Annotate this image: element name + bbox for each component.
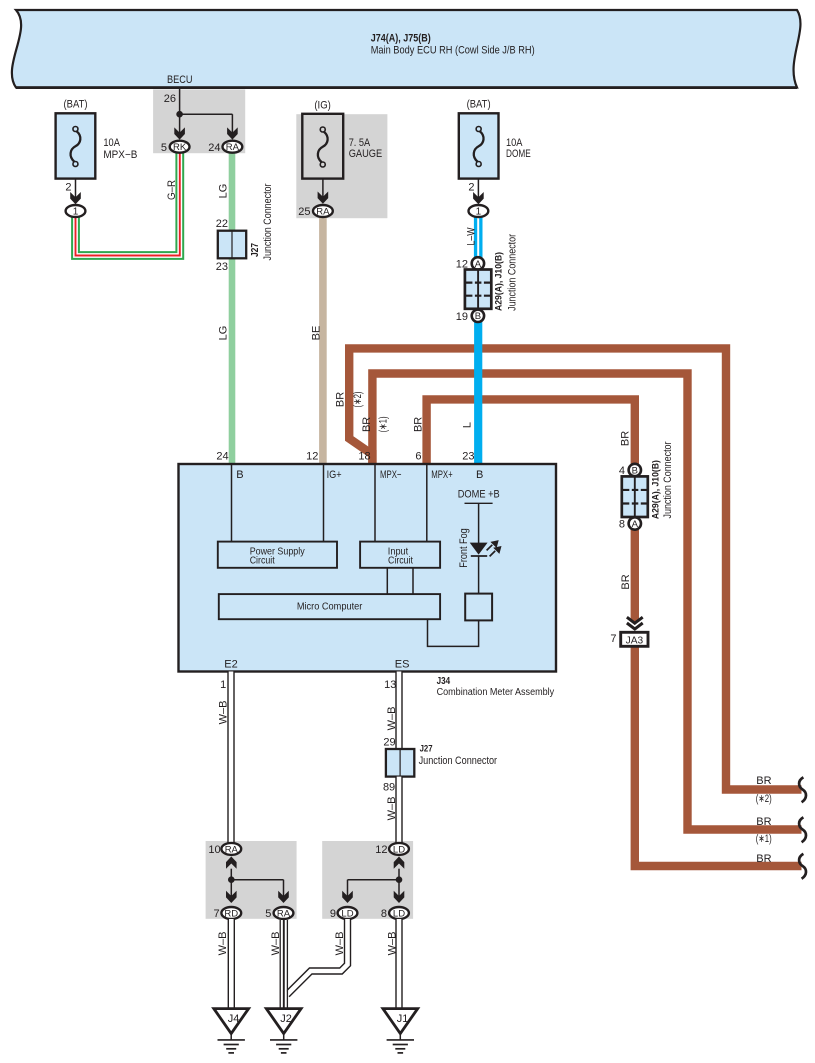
- svg-text:A: A: [632, 519, 639, 530]
- svg-text:RD: RD: [224, 909, 238, 920]
- svg-text:G–R: G–R: [166, 180, 178, 200]
- arrow into terminal 1: [473, 192, 484, 204]
- wire LG: BECU RA to J27 pin22: [229, 154, 236, 232]
- svg-text:BR: BR: [756, 853, 771, 865]
- svg-text:IG+: IG+: [327, 469, 342, 481]
- gray block BECU connector area: [153, 89, 245, 153]
- arrow up into 12 LD: [394, 857, 405, 869]
- svg-text:L–W: L–W: [465, 227, 477, 245]
- terminal 24 RA: [223, 141, 243, 153]
- svg-text:A29(A), J10(B): A29(A), J10(B): [494, 252, 505, 311]
- svg-text:10: 10: [208, 844, 220, 856]
- wire W-B: ES pin13 to J27 pin29: [395, 672, 402, 750]
- svg-text:(∗1): (∗1): [756, 833, 772, 845]
- wire BE: gauge fuse to meter pin12: [319, 218, 327, 464]
- svg-text:25: 25: [298, 206, 310, 218]
- svg-text:ES: ES: [395, 658, 410, 670]
- svg-text:BR: BR: [619, 431, 631, 446]
- arrow into RA: [227, 127, 238, 139]
- ground J4: [214, 1009, 249, 1034]
- svg-text:12: 12: [375, 844, 387, 856]
- wire W-B: 9 LD to ground J2 (diagonal): [287, 919, 348, 995]
- wire branch left block: [230, 869, 232, 880]
- svg-text:L: L: [462, 422, 474, 428]
- svg-text:LD: LD: [393, 844, 405, 855]
- svg-text:2: 2: [468, 182, 474, 194]
- svg-text:24: 24: [216, 451, 228, 463]
- svg-text:LD: LD: [341, 909, 353, 920]
- svg-text:E2: E2: [224, 658, 237, 670]
- svg-text:BE: BE: [310, 326, 322, 341]
- svg-text:(∗1): (∗1): [377, 416, 389, 432]
- box Micro Computer: [219, 594, 440, 619]
- svg-text:18: 18: [358, 451, 370, 463]
- svg-text:J27: J27: [420, 744, 433, 754]
- svg-text:B: B: [475, 311, 481, 322]
- wire fuse pin2: [477, 179, 479, 198]
- terminal 1: [469, 205, 489, 217]
- svg-text:10A: 10A: [103, 137, 120, 149]
- svg-text:J74(A), J75(B): J74(A), J75(B): [371, 33, 431, 45]
- svg-text:5: 5: [161, 142, 167, 154]
- wire LED to lamp box: [478, 556, 480, 594]
- svg-text:(∗2): (∗2): [352, 392, 364, 408]
- arrow into 7 RD: [226, 891, 237, 903]
- ground J2: [266, 1009, 301, 1034]
- squiggle BR: [799, 854, 806, 879]
- arrow up into 10 RA: [226, 857, 237, 869]
- svg-text:W–B: W–B: [334, 932, 346, 956]
- svg-text:RA: RA: [316, 207, 330, 218]
- arrow into terminal 1: [70, 192, 81, 204]
- svg-text:7: 7: [213, 908, 219, 920]
- svg-text:RA: RA: [226, 142, 240, 153]
- svg-text:23: 23: [216, 261, 228, 273]
- svg-text:A29(A), J10(B): A29(A), J10(B): [650, 460, 661, 519]
- svg-text:BR: BR: [361, 417, 373, 432]
- svg-text:RA: RA: [277, 909, 291, 920]
- lamp driver box: [465, 594, 492, 621]
- svg-text:LG: LG: [218, 184, 230, 199]
- node junction dot: [176, 111, 183, 118]
- terminal 25 RA: [313, 205, 333, 217]
- wire BECU pin26 drop: [179, 89, 181, 134]
- svg-text:W–B: W–B: [270, 932, 282, 956]
- svg-text:B: B: [476, 469, 483, 481]
- svg-text:J34: J34: [437, 676, 451, 687]
- wire BR (*2): meter pin18 to right side, squiggle end: [349, 348, 801, 789]
- svg-text:W–B: W–B: [217, 932, 229, 956]
- svg-text:Front Fog: Front Fog: [458, 528, 470, 568]
- svg-text:(BAT): (BAT): [467, 99, 491, 111]
- svg-text:Junction Connector: Junction Connector: [419, 755, 498, 767]
- arrow into 9 LD: [342, 891, 353, 903]
- svg-text:LG: LG: [218, 326, 230, 341]
- svg-text:24: 24: [208, 142, 220, 154]
- svg-text:RK: RK: [173, 142, 187, 153]
- combination meter J34 box: [179, 464, 557, 672]
- svg-text:Circuit: Circuit: [388, 556, 413, 567]
- wire W-B: E2 pin1 to 10 RA: [227, 672, 234, 844]
- box Input Circuit: [360, 542, 440, 568]
- wire L-W: dome fuse terminal 1 to A29 pin12: [474, 216, 483, 258]
- wire fuse to 25 RA: [322, 179, 324, 197]
- arrow into 5 RA: [278, 891, 289, 903]
- banner: Main Body ECU ribbon: [12, 10, 801, 88]
- svg-text:Combination Meter Assembly: Combination Meter Assembly: [437, 687, 555, 698]
- svg-text:J4: J4: [228, 1013, 240, 1025]
- svg-text:W–B: W–B: [387, 932, 399, 956]
- svg-text:1: 1: [220, 679, 226, 691]
- LED Front Fog: [470, 543, 488, 555]
- arrow into RK: [174, 127, 185, 139]
- junction connector J27 lower: [386, 749, 414, 777]
- svg-text:Junction Connector: Junction Connector: [506, 234, 518, 311]
- terminal 1: [66, 205, 86, 217]
- meter internal wire pin18 MPX-: [374, 465, 376, 542]
- wire branch right block: [398, 869, 400, 880]
- svg-text:W–B: W–B: [386, 797, 398, 821]
- svg-text:22: 22: [216, 218, 228, 230]
- svg-text:12: 12: [306, 451, 318, 463]
- meter internal wire pin24 B: [231, 465, 233, 542]
- svg-text:23: 23: [462, 451, 474, 463]
- svg-text:Micro Computer: Micro Computer: [297, 602, 363, 613]
- svg-text:13: 13: [384, 679, 396, 691]
- svg-text:BR: BR: [412, 417, 424, 432]
- arrow into 8 LD: [394, 891, 405, 903]
- svg-text:1: 1: [73, 207, 79, 218]
- svg-text:5: 5: [265, 908, 271, 920]
- svg-text:W–B: W–B: [386, 707, 398, 731]
- svg-text:J2: J2: [280, 1013, 292, 1025]
- wire fuse pin2: [75, 179, 77, 198]
- svg-text:(BAT): (BAT): [64, 99, 88, 111]
- svg-text:Circuit: Circuit: [250, 556, 275, 567]
- wire lamp box to micro computer: [428, 619, 479, 646]
- gray block IG GAUGE fuse area: [296, 114, 387, 218]
- svg-text:26: 26: [164, 93, 176, 105]
- wire L: A29 pin19 to meter pin23: [474, 320, 482, 464]
- junction connector J27: [218, 231, 246, 259]
- svg-text:MPX+: MPX+: [431, 469, 453, 481]
- svg-text:Main Body ECU RH (Cowl Side J/: Main Body ECU RH (Cowl Side J/B RH): [371, 45, 535, 57]
- svg-text:(∗2): (∗2): [756, 793, 772, 805]
- svg-text:B: B: [236, 469, 243, 481]
- svg-text:BR: BR: [756, 816, 771, 828]
- wire BR (*1): meter pin18 to right side, squiggle end: [372, 374, 801, 830]
- box Power Supply Circuit: [218, 542, 337, 568]
- svg-text:19: 19: [456, 311, 468, 323]
- svg-text:DOME +B: DOME +B: [458, 489, 500, 501]
- wire G-R: fuse terminal 1 to BECU RK: [76, 154, 180, 256]
- svg-text:JA3: JA3: [626, 635, 644, 646]
- meter internal wire pin6 MPX+: [426, 465, 428, 542]
- svg-text:8: 8: [381, 908, 387, 920]
- svg-text:2: 2: [65, 182, 71, 194]
- svg-text:8: 8: [619, 518, 625, 530]
- svg-text:Junction Connector: Junction Connector: [262, 183, 274, 260]
- squiggle (*1): [799, 817, 806, 842]
- svg-text:MPX−B: MPX−B: [103, 149, 137, 161]
- junction connector A29(A), J10(B) right: [622, 476, 648, 517]
- wire LG: J27 pin23 to meter pin24: [229, 258, 236, 465]
- terminal 5 RK: [170, 141, 190, 153]
- svg-text:J1: J1: [397, 1013, 409, 1025]
- svg-text:(IG): (IG): [314, 100, 331, 112]
- svg-text:BECU: BECU: [167, 74, 193, 86]
- svg-text:Junction Connector: Junction Connector: [662, 441, 674, 518]
- svg-text:7: 7: [610, 633, 616, 645]
- svg-text:6: 6: [415, 451, 421, 463]
- meter internal wire pin12 IG+: [323, 465, 325, 542]
- wires Input Circuit to Micro Computer: [386, 568, 388, 594]
- chevrons into JA3: [629, 622, 641, 633]
- svg-text:LD: LD: [393, 909, 405, 920]
- arrow into 25 RA: [318, 192, 329, 204]
- svg-text:9: 9: [330, 908, 336, 920]
- svg-text:J27: J27: [250, 243, 261, 257]
- svg-text:89: 89: [383, 782, 395, 794]
- squiggle (*2): [799, 777, 806, 802]
- svg-text:29: 29: [383, 737, 395, 749]
- svg-text:BR: BR: [335, 392, 347, 407]
- wire W-B: J27 pin89 to 12 LD: [395, 777, 402, 843]
- svg-text:BR: BR: [620, 574, 632, 589]
- junction connector A29(A), J10(B) top: [465, 270, 491, 309]
- svg-text:RA: RA: [225, 844, 239, 855]
- svg-text:DOME: DOME: [506, 148, 531, 160]
- gray block lower-right LD/LD/LD: [322, 841, 413, 919]
- wire branch to pin24: [180, 113, 233, 115]
- gray block lower-left RA/RD/RA: [206, 841, 297, 919]
- ground J1: [383, 1009, 418, 1034]
- LED light arrows: [487, 545, 493, 551]
- wire W-B: 8 LD to ground J1: [395, 919, 402, 1009]
- svg-text:B: B: [632, 465, 638, 476]
- wire BR: meter pin6 via A29/J10 connector and JA3 to squiggle: [427, 399, 802, 866]
- wire W-B: 7 RD to ground J4: [228, 919, 235, 1009]
- svg-text:1: 1: [476, 207, 482, 218]
- svg-text:BR: BR: [756, 775, 771, 787]
- svg-text:GAUGE: GAUGE: [349, 148, 383, 160]
- svg-text:W–B: W–B: [218, 701, 230, 725]
- svg-text:MPX−: MPX−: [380, 469, 402, 481]
- wire W-B: 5 RA to ground J2 (triple with 9 LD): [281, 920, 287, 1009]
